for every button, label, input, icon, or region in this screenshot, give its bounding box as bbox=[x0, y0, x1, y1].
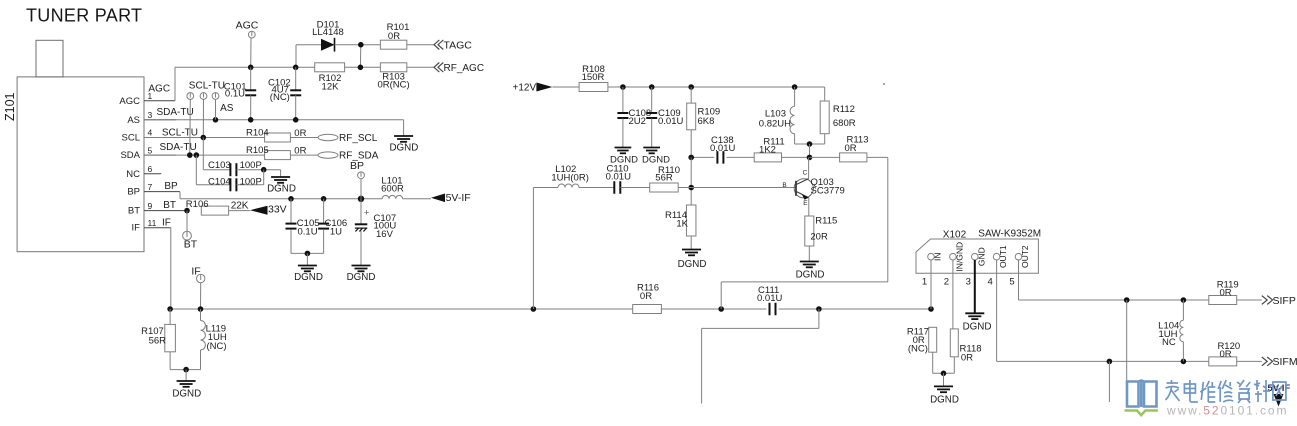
svg-text:AGC: AGC bbox=[119, 96, 140, 107]
svg-text:R106: R106 bbox=[186, 199, 209, 210]
svg-text:C104: C104 bbox=[208, 177, 231, 188]
svg-text:BP: BP bbox=[127, 187, 140, 198]
svg-text:IF: IF bbox=[132, 223, 141, 234]
svg-text:BT: BT bbox=[163, 200, 176, 211]
svg-text:680R: 680R bbox=[833, 118, 856, 129]
svg-text:DGND: DGND bbox=[267, 184, 296, 195]
svg-text:4: 4 bbox=[987, 277, 992, 288]
svg-text:SC3779: SC3779 bbox=[811, 185, 845, 196]
svg-text:C: C bbox=[803, 170, 808, 177]
svg-text:DGND: DGND bbox=[963, 322, 992, 333]
svg-text:IF: IF bbox=[162, 218, 171, 229]
svg-text:3: 3 bbox=[148, 110, 153, 120]
svg-text:4: 4 bbox=[148, 128, 153, 138]
svg-text:LL4148: LL4148 bbox=[312, 27, 344, 38]
svg-text:33V: 33V bbox=[268, 204, 287, 216]
svg-text:0R: 0R bbox=[961, 352, 973, 363]
svg-text:0R(NC): 0R(NC) bbox=[377, 80, 409, 91]
svg-text:TUNER PART: TUNER PART bbox=[26, 6, 142, 26]
svg-text:0.01U: 0.01U bbox=[710, 143, 735, 154]
svg-text:100P: 100P bbox=[240, 177, 262, 188]
svg-text:22K: 22K bbox=[231, 200, 249, 211]
svg-text:0R: 0R bbox=[294, 145, 306, 156]
svg-text:C103: C103 bbox=[208, 160, 231, 171]
svg-text:5: 5 bbox=[1009, 277, 1014, 288]
svg-text:0R: 0R bbox=[1220, 287, 1232, 298]
svg-text:6: 6 bbox=[148, 164, 153, 174]
svg-text:DGND: DGND bbox=[678, 259, 707, 270]
svg-text:IN: IN bbox=[933, 252, 943, 261]
svg-text:5: 5 bbox=[148, 145, 153, 155]
svg-text:1UH(0R): 1UH(0R) bbox=[551, 172, 588, 183]
svg-text:E: E bbox=[803, 200, 808, 207]
svg-text:0R: 0R bbox=[845, 143, 857, 154]
svg-text:SCL-TU: SCL-TU bbox=[162, 128, 198, 139]
svg-text:NC: NC bbox=[1162, 337, 1176, 348]
svg-text:0R: 0R bbox=[640, 291, 652, 302]
svg-text:16V: 16V bbox=[376, 229, 394, 240]
svg-text:OUT2: OUT2 bbox=[1020, 245, 1030, 268]
svg-text:IF: IF bbox=[191, 266, 200, 278]
svg-text:DGND: DGND bbox=[172, 389, 201, 400]
svg-text:DGND: DGND bbox=[796, 270, 825, 281]
svg-text:DGND: DGND bbox=[389, 143, 418, 154]
svg-text:Z101: Z101 bbox=[3, 92, 17, 121]
svg-text:1K2: 1K2 bbox=[759, 144, 776, 155]
svg-text:B: B bbox=[782, 182, 786, 189]
svg-text:R115: R115 bbox=[815, 216, 837, 227]
svg-text:SDA-TU: SDA-TU bbox=[160, 142, 197, 153]
svg-text:SAW-K9352M: SAW-K9352M bbox=[978, 229, 1041, 240]
svg-text:0.82UH: 0.82UH bbox=[759, 119, 791, 130]
svg-text:AGC: AGC bbox=[148, 84, 170, 95]
svg-text:1K: 1K bbox=[676, 219, 688, 230]
svg-text:R105: R105 bbox=[246, 145, 269, 156]
svg-text:RF_AGC: RF_AGC bbox=[444, 63, 485, 74]
svg-text:0R: 0R bbox=[388, 31, 400, 42]
svg-text:DGND: DGND bbox=[294, 272, 323, 283]
svg-text:BT: BT bbox=[184, 239, 198, 251]
svg-text:2U2: 2U2 bbox=[629, 116, 646, 127]
svg-text:AGC: AGC bbox=[236, 20, 259, 32]
svg-text:20R: 20R bbox=[810, 232, 828, 243]
svg-text:R104: R104 bbox=[246, 128, 269, 139]
svg-text:RF_SCL: RF_SCL bbox=[339, 133, 378, 144]
svg-text:DGND: DGND bbox=[347, 272, 376, 283]
svg-text:3: 3 bbox=[966, 277, 971, 288]
svg-text:0.1U: 0.1U bbox=[225, 88, 245, 99]
svg-text:(NC): (NC) bbox=[908, 344, 928, 355]
svg-text:NC: NC bbox=[126, 169, 140, 180]
svg-text:www.520101.com: www.520101.com bbox=[1166, 404, 1288, 418]
svg-text:150R: 150R bbox=[582, 72, 605, 83]
svg-text:SDA: SDA bbox=[120, 150, 140, 161]
svg-text:9: 9 bbox=[148, 201, 153, 211]
svg-text:TAGC: TAGC bbox=[444, 40, 473, 52]
svg-text:0R: 0R bbox=[294, 128, 306, 139]
svg-text:100P: 100P bbox=[240, 160, 262, 171]
svg-text:+12V: +12V bbox=[513, 82, 537, 93]
svg-text:BP: BP bbox=[164, 181, 178, 192]
svg-text:OUT1: OUT1 bbox=[998, 245, 1008, 268]
svg-text:SIFP: SIFP bbox=[1273, 295, 1296, 307]
svg-text:DGND: DGND bbox=[930, 395, 959, 406]
svg-text:BP: BP bbox=[350, 160, 364, 172]
svg-text:0R: 0R bbox=[1220, 349, 1232, 360]
svg-text:56R: 56R bbox=[149, 335, 167, 346]
svg-text:SCL: SCL bbox=[122, 133, 140, 144]
svg-text:AS: AS bbox=[220, 103, 234, 114]
svg-text:GND: GND bbox=[976, 247, 986, 266]
svg-text:R112: R112 bbox=[833, 104, 855, 115]
svg-text:SCL-TU: SCL-TU bbox=[189, 80, 225, 91]
svg-text:0.01U: 0.01U bbox=[658, 116, 683, 127]
svg-text:1: 1 bbox=[922, 277, 927, 288]
svg-text:5V-IF: 5V-IF bbox=[446, 192, 471, 204]
svg-text:12K: 12K bbox=[322, 82, 340, 93]
svg-text:2: 2 bbox=[944, 277, 949, 288]
svg-text:6K8: 6K8 bbox=[698, 116, 715, 127]
svg-text:AS: AS bbox=[127, 115, 140, 126]
svg-text:SDA-TU: SDA-TU bbox=[157, 107, 194, 118]
svg-text:0.01U: 0.01U bbox=[757, 293, 782, 304]
svg-text:+: + bbox=[364, 208, 370, 219]
svg-text:BT: BT bbox=[128, 206, 140, 217]
svg-text:SIFM: SIFM bbox=[1273, 356, 1297, 368]
svg-text:7: 7 bbox=[148, 182, 153, 192]
svg-text:56R: 56R bbox=[655, 172, 673, 183]
svg-text:(NC): (NC) bbox=[270, 92, 290, 103]
svg-text:0.1U: 0.1U bbox=[298, 227, 318, 238]
svg-text:X102: X102 bbox=[943, 230, 967, 241]
svg-text:11: 11 bbox=[148, 218, 157, 228]
svg-text:IN/GND: IN/GND bbox=[954, 242, 964, 272]
svg-text:(NC): (NC) bbox=[207, 341, 227, 352]
svg-text:0.01U: 0.01U bbox=[606, 172, 631, 183]
svg-text:1U: 1U bbox=[330, 227, 342, 238]
svg-text:600R: 600R bbox=[381, 184, 404, 195]
